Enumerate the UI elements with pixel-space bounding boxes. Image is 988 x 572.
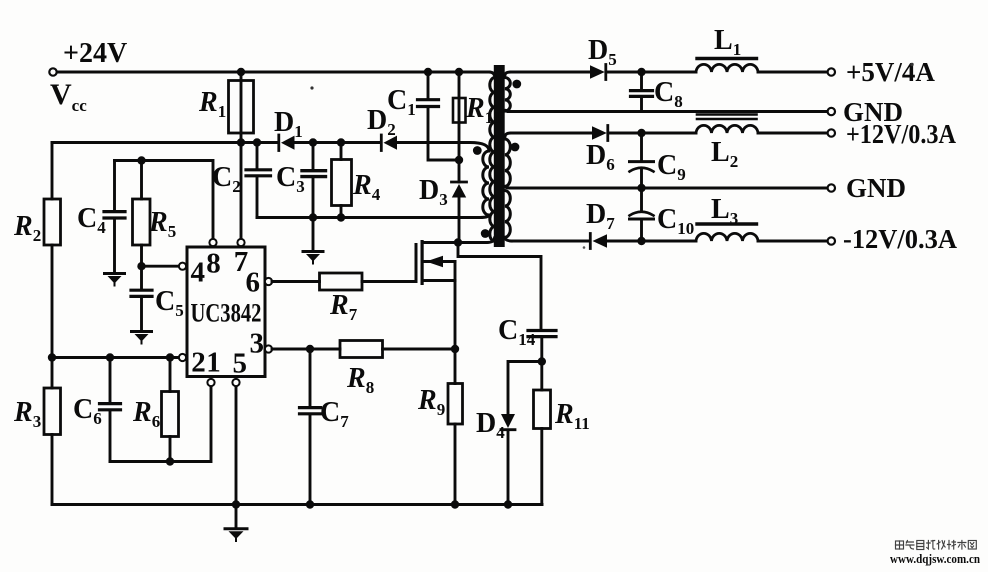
diode D7	[589, 234, 592, 249]
pin 4 terminal	[179, 263, 186, 270]
svg-text:3: 3	[249, 328, 264, 360]
inductor L2 coil	[696, 125, 758, 133]
transformer T1 core	[494, 65, 505, 247]
inductor L1 bar	[697, 57, 757, 60]
node junction pin5 bottom rail	[232, 500, 240, 508]
svg-text:L3: L3	[711, 194, 738, 228]
transistor Q1 drain stub	[424, 241, 459, 244]
speck marks	[310, 86, 313, 89]
wire Vref line y160	[115, 161, 214, 239]
svg-text:D5: D5	[588, 35, 617, 69]
svg-text:R3: R3	[13, 397, 41, 431]
svg-text:+12V/0.3A: +12V/0.3A	[846, 119, 956, 149]
node secondary 2 dot	[511, 143, 520, 152]
capacitor C7	[309, 349, 312, 407]
node junction R6 bottom	[166, 457, 174, 465]
node junction R5 bottom to pin4	[137, 262, 145, 270]
node junction C6 top	[106, 353, 114, 361]
svg-text:D1: D1	[274, 107, 303, 141]
inductor L3 coil	[696, 233, 758, 241]
node -12V terminal	[828, 237, 835, 244]
transformer T1 secondary 1 winding	[505, 72, 511, 112]
pin 8 terminal	[209, 239, 216, 246]
node +12V terminal	[828, 129, 835, 136]
wire drain to C14	[458, 243, 541, 331]
wire C14 node to D4	[508, 362, 542, 415]
capacitor C10	[640, 188, 643, 211]
transistor Q1 source arrow	[424, 260, 456, 263]
wire -12V line	[511, 240, 590, 243]
svg-text:D6: D6	[586, 140, 615, 174]
capacitor C4	[113, 161, 116, 212]
diode D3	[458, 160, 461, 182]
pin 7 terminal	[237, 239, 244, 246]
svg-text:R8: R8	[346, 363, 374, 397]
capacitor C5	[131, 290, 152, 296]
pin 3 terminal	[265, 345, 272, 352]
pin 6 terminal	[265, 278, 272, 285]
svg-text:www.dqjsw.com.cn: www.dqjsw.com.cn	[890, 552, 980, 566]
node junction R8 source	[451, 345, 459, 353]
node junction C14 bottom	[538, 357, 546, 365]
wire Vcc line y142	[52, 141, 278, 144]
wire bottom rail	[52, 503, 542, 506]
svg-text:R2: R2	[13, 211, 41, 245]
svg-text:C8: C8	[654, 77, 683, 111]
svg-text:D3: D3	[419, 175, 448, 209]
svg-text:UC3842: UC3842	[191, 299, 262, 328]
diode D5	[590, 65, 605, 79]
capacitor C3	[312, 143, 315, 171]
node junction pin2 tap	[48, 353, 56, 361]
ground below C4	[105, 272, 125, 275]
transformer T1 secondary 2 winding upper	[505, 133, 511, 188]
node junction R1 top	[237, 68, 245, 76]
svg-text:D7: D7	[586, 199, 615, 233]
capacitor C2	[256, 143, 259, 170]
wire source line down	[454, 262, 457, 384]
ground below C3	[303, 250, 323, 253]
resistor R9	[448, 384, 463, 425]
svg-text:R11: R11	[554, 399, 590, 433]
wire GND2 line	[511, 187, 828, 190]
capacitor C9	[640, 133, 643, 161]
svg-text:GND: GND	[846, 173, 906, 203]
transistor Q1 source stub	[424, 279, 456, 282]
svg-text:L2: L2	[711, 137, 738, 171]
ground main	[225, 527, 247, 530]
svg-text:Vcc: Vcc	[50, 78, 87, 115]
capacitor C8	[640, 72, 643, 90]
svg-text:C9: C9	[657, 150, 686, 184]
pin 2 terminal	[179, 354, 186, 361]
svg-text:+24V: +24V	[63, 38, 127, 69]
node junction R1 bottom	[237, 138, 245, 146]
node junction R5 top	[137, 156, 145, 164]
svg-text:C4: C4	[77, 203, 106, 237]
wire pin7 drop	[240, 143, 243, 239]
wire D1 to D2	[295, 141, 381, 144]
wire top +24V rail	[57, 71, 489, 74]
node junction C1-R10	[455, 156, 463, 164]
svg-text:4: 4	[191, 257, 206, 289]
svg-text:R4: R4	[352, 170, 381, 204]
node junction R6 top	[166, 353, 174, 361]
svg-text:R1: R1	[198, 87, 226, 121]
pin 1 terminal	[207, 379, 214, 386]
node junction C9 top	[637, 129, 645, 137]
svg-text:1: 1	[206, 347, 221, 379]
node junction C10 bottom	[637, 237, 645, 245]
svg-text:C6: C6	[73, 394, 102, 428]
node junction R4 bottom	[337, 213, 345, 221]
svg-text:C5: C5	[155, 286, 184, 320]
node junction C9 bottom	[637, 184, 645, 192]
wire R7 to gate	[362, 280, 415, 283]
wire pin2 line y357	[52, 356, 179, 359]
inductor L1 coil	[696, 64, 758, 72]
svg-text:L1: L1	[714, 25, 741, 59]
resistor R10	[458, 72, 461, 160]
node secondary 1 dot	[512, 80, 521, 89]
wire feedback line y461 to pin1	[110, 387, 211, 462]
node junction R4 top	[337, 138, 345, 146]
node junction C8 top	[637, 68, 645, 76]
svg-text:5: 5	[232, 348, 247, 380]
resistor R3	[44, 388, 61, 435]
node junction C7 bottom	[306, 500, 314, 508]
node GND1 terminal	[828, 108, 835, 115]
svg-text:C7: C7	[320, 397, 349, 431]
capacitor C14	[528, 331, 556, 337]
node GND2 terminal	[828, 184, 835, 191]
transformer T1 secondary 2 winding lower	[505, 191, 511, 242]
diode D2	[380, 135, 383, 151]
node junction C7 top	[306, 345, 314, 353]
node junction C1 top	[424, 68, 432, 76]
node junction C3 bottom	[309, 213, 317, 221]
wire GND1 line	[508, 110, 828, 113]
svg-text:R7: R7	[329, 290, 358, 324]
svg-text:C3: C3	[276, 162, 305, 196]
wire +12V line	[511, 132, 592, 135]
resistor R7	[320, 273, 363, 290]
diode D6	[592, 126, 607, 140]
wire pin5 to ground rail	[235, 387, 238, 528]
pin 5 terminal	[232, 379, 239, 386]
svg-text:+5V/4A: +5V/4A	[846, 57, 935, 87]
node junction R10 top	[455, 68, 463, 76]
wire to pin 4	[142, 265, 179, 268]
wire ground line y217	[257, 216, 479, 219]
resistor R1	[240, 72, 243, 142]
resistor R11	[540, 362, 543, 391]
watermark site name pseudo glyphs	[896, 541, 977, 550]
op-amp U1 UC3842 body	[187, 247, 265, 377]
resistor R5	[140, 161, 143, 200]
svg-text:-12V/0.3A: -12V/0.3A	[843, 224, 957, 254]
node junction D4 bottom	[504, 500, 512, 508]
node junction C2 top	[253, 138, 261, 146]
node junction R9 bottom	[451, 500, 459, 508]
transformer T1 aux winding	[480, 151, 489, 218]
svg-text:D4: D4	[476, 408, 505, 442]
transistor Q1 channel bar	[421, 240, 424, 285]
svg-text:C14: C14	[498, 315, 536, 349]
diode D1	[277, 135, 280, 151]
transformer T1 primary winding	[489, 72, 495, 78]
wire left rail top corner	[51, 143, 54, 200]
inductor L2 double bar	[697, 115, 757, 120]
node primary dot	[481, 229, 490, 238]
node junction drain	[454, 238, 462, 246]
wire +5V line	[511, 71, 590, 74]
svg-text:6: 6	[246, 267, 261, 299]
capacitor C1	[427, 72, 430, 99]
svg-text:8: 8	[206, 248, 221, 280]
svg-text:R9: R9	[417, 385, 445, 419]
wire pin6 to R7	[272, 280, 320, 283]
svg-text:2: 2	[191, 347, 206, 379]
svg-text:C10: C10	[657, 204, 694, 238]
wire R8 to source line	[383, 348, 456, 351]
svg-text:R6: R6	[132, 397, 160, 431]
svg-text:C2: C2	[212, 162, 241, 196]
wire pin3 to R8	[272, 348, 340, 351]
capacitor C6	[109, 358, 112, 404]
node aux winding dot	[473, 146, 482, 155]
resistor R6	[169, 358, 172, 392]
svg-text:R5: R5	[148, 207, 176, 241]
svg-text:C1: C1	[387, 85, 416, 119]
ground below C5	[132, 330, 152, 333]
node +5V terminal	[828, 68, 835, 75]
diode D4	[501, 414, 515, 428]
inductor L3 bar	[697, 222, 757, 225]
resistor R2	[44, 199, 61, 245]
wire D2 to aux winding	[397, 143, 489, 152]
resistor R4	[340, 143, 343, 160]
node +24V input terminal	[49, 68, 56, 75]
node junction C3 top	[309, 138, 317, 146]
transistor Q1 MOSFET gate bar	[415, 243, 418, 283]
resistor R8	[340, 341, 383, 358]
wire drain to primary bottom	[458, 238, 495, 243]
